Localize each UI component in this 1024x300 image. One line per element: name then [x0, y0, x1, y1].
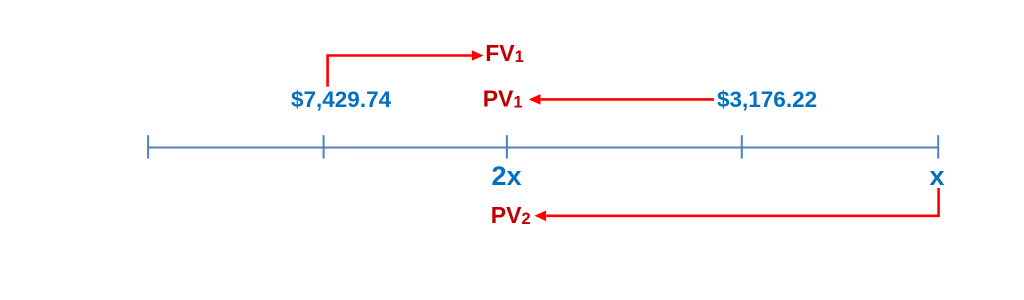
tick t4: [937, 135, 939, 158]
svg-text:FV1: FV1: [485, 40, 524, 66]
tick t3: [741, 135, 743, 158]
svg-text:PV1: PV1: [483, 85, 523, 111]
tick t1: [323, 135, 325, 158]
arrow FV1 (elbow from $7,429.74 up and right to FV1): [328, 56, 472, 87]
svg-text:2x: 2x: [492, 161, 522, 191]
svg-text:PV2: PV2: [491, 202, 531, 228]
tick t0: [147, 135, 149, 158]
svg-text:$7,429.74: $7,429.74: [291, 87, 392, 112]
timeline main line: [148, 147, 938, 149]
tick t2: [506, 135, 508, 158]
svg-text:x: x: [930, 161, 945, 191]
svg-text:$3,176.22: $3,176.22: [717, 87, 817, 112]
arrow PV2 (elbow from x down and left to PV2): [546, 188, 938, 216]
arrow PV1 (from $3,176.22 left to PV1): [541, 98, 714, 101]
